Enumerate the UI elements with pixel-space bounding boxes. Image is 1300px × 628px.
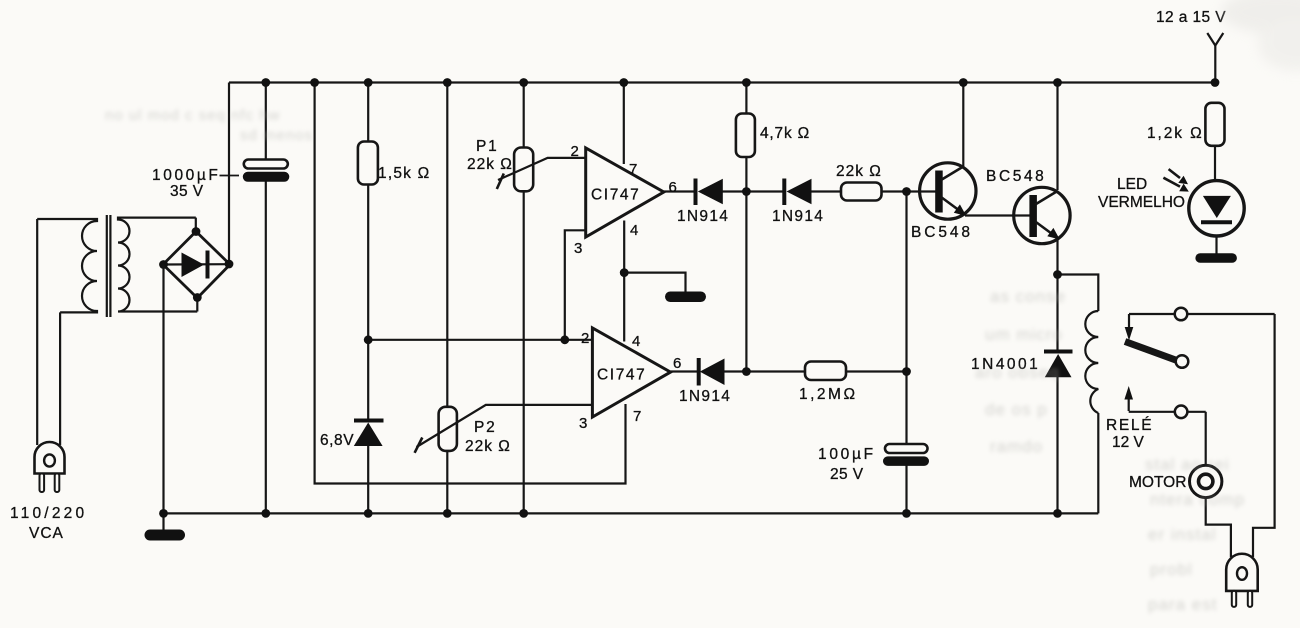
- capacitor C1 1000uF: [243, 160, 289, 182]
- op-amp U2 CI747: [592, 328, 670, 417]
- svg-text:100µF: 100µF: [818, 446, 876, 463]
- wire Q1 collector to rail: [962, 83, 964, 167]
- node Q2 emitter / D5 / relay: [1053, 270, 1062, 279]
- svg-text:4,7k Ω: 4,7k Ω: [760, 125, 810, 142]
- wire rail to U1 pin 7: [623, 83, 625, 165]
- wire Q1 emitter to Q2 base: [965, 214, 1030, 216]
- svg-text:stal ao rei: stal ao rei: [1145, 455, 1230, 474]
- scan smudge top right corner: [1221, 0, 1300, 71]
- label C1 leader line: [220, 175, 240, 177]
- svg-text:BC548: BC548: [986, 168, 1046, 185]
- AC plug P_OUT right: [1226, 554, 1258, 607]
- wire U1 pin 4 to U2 pin 4: [623, 221, 625, 342]
- bleed-through ghost text top-left: [105, 107, 313, 144]
- potentiometer P2 body: [439, 407, 457, 451]
- wire secondary top to bridge: [195, 218, 197, 233]
- wire C1 bottom lead: [265, 181, 267, 513]
- wire C1 top lead: [265, 83, 267, 161]
- svg-text:1,5k Ω: 1,5k Ω: [378, 165, 430, 182]
- wire D1 to D2: [723, 190, 785, 192]
- wire R4 to Q1 base: [881, 190, 935, 192]
- relay arrow bottom: [1124, 386, 1133, 411]
- svg-text:6: 6: [673, 355, 681, 372]
- svg-text:12 a 15 V: 12 a 15 V: [1156, 9, 1226, 26]
- svg-text:sd menos: sd menos: [240, 127, 313, 144]
- svg-text:P1: P1: [476, 138, 499, 155]
- svg-text:25 V: 25 V: [830, 466, 864, 483]
- wire P2 top lead bus: [446, 83, 448, 408]
- node top rail junctions: [261, 78, 1219, 87]
- svg-text:1,2MΩ: 1,2MΩ: [799, 386, 858, 403]
- wire emitter node to relay coil top: [1058, 275, 1099, 312]
- svg-text:VERMELHO: VERMELHO: [1098, 194, 1185, 211]
- wire mid row U1 out to D1: [664, 190, 696, 192]
- svg-text:22k Ω: 22k Ω: [836, 163, 882, 180]
- label P2 22k: [465, 419, 511, 455]
- transistor Q1 BC548: [920, 163, 976, 219]
- svg-text:7: 7: [629, 161, 637, 178]
- svg-text:ntera comp: ntera comp: [1150, 490, 1245, 509]
- svg-text:1N914: 1N914: [772, 208, 824, 225]
- wire zener anode to ground rail: [367, 445, 369, 513]
- diode D2 1N914: [784, 179, 811, 206]
- wire P1 bottom lead bus: [523, 191, 525, 514]
- resistor R5 1,2M: [805, 362, 846, 381]
- wire relay coil bottom to ground rail: [1097, 413, 1099, 513]
- node R4 / Q1 base / C2: [902, 187, 911, 196]
- capacitor C2 100uF: [883, 444, 929, 466]
- svg-text:2: 2: [571, 143, 579, 160]
- wire U2 out to D3: [671, 370, 699, 372]
- relay contact NC top: [1129, 308, 1275, 321]
- potentiometer P1 wiper: [497, 158, 586, 189]
- wire D3 to R5 1,2M: [724, 370, 806, 372]
- svg-text:probl: probl: [1150, 560, 1193, 579]
- wire bottom ground rail: [164, 512, 1099, 514]
- node D1-D2 junction (4,7k): [742, 187, 751, 196]
- wire R3 4,7k top lead: [745, 83, 747, 115]
- svg-text:para est: para est: [1148, 595, 1217, 614]
- relay armature arrow top: [1125, 314, 1134, 341]
- svg-text:22k Ω: 22k Ω: [467, 156, 513, 173]
- ground GND2 mid: [624, 273, 706, 302]
- diode D1 1N914: [696, 179, 723, 206]
- wire U1 pin 3 down to U2 pin 2 node: [565, 230, 586, 339]
- node U2 pin2 / U1 pin3: [560, 335, 569, 344]
- node R5 / C2: [902, 367, 911, 376]
- svg-text:6: 6: [669, 179, 677, 196]
- svg-text:4: 4: [630, 222, 638, 239]
- node bridge top: [192, 227, 201, 236]
- wire rail to bridge right vertex: [228, 83, 230, 265]
- svg-text:aro obseq: aro obseq: [975, 363, 1060, 382]
- svg-text:CI747: CI747: [597, 367, 646, 384]
- wire C2 bottom lead: [905, 465, 907, 513]
- svg-text:2: 2: [581, 330, 589, 347]
- label 110/220 VCA: [10, 505, 87, 542]
- LED arrows: [1163, 169, 1188, 192]
- wire Q2 emitter node down through D5 to ground rail: [1056, 238, 1058, 351]
- label RELE 12V: [1106, 417, 1153, 451]
- wire Q2 collector to rail: [1056, 83, 1058, 191]
- svg-text:LED: LED: [1117, 176, 1147, 193]
- wire contact to motor: [1205, 412, 1207, 466]
- wire motor to plug: [1206, 498, 1231, 557]
- wire R5 to node B: [846, 370, 907, 372]
- supply terminal 12 a 15V: [1207, 33, 1223, 83]
- diode D5 1N4001: [1044, 352, 1073, 378]
- transformer T1 core: [107, 215, 111, 317]
- wire U2 pin 2 line: [368, 339, 592, 341]
- wire top supply rail: [229, 81, 1215, 83]
- transformer T1 primary: [37, 219, 97, 312]
- wire R3 bottom lead down to 1,2M row: [745, 157, 747, 372]
- label 1000uF 35V: [152, 167, 220, 200]
- potentiometer P1 body: [514, 148, 533, 192]
- node bridge left: [159, 260, 168, 269]
- label LED VERMELHO: [1098, 176, 1185, 211]
- svg-text:1,2k Ω: 1,2k Ω: [1147, 125, 1204, 142]
- svg-text:MOTOR: MOTOR: [1129, 474, 1186, 491]
- svg-text:3: 3: [579, 415, 587, 432]
- wire top contact to plug: [1253, 314, 1275, 557]
- label P1 22k: [467, 138, 513, 173]
- svg-text:6,8V: 6,8V: [320, 432, 354, 449]
- bleed-through ghost text: [975, 287, 1245, 614]
- wire node B down to C2: [905, 192, 907, 445]
- svg-text:RELÉ: RELÉ: [1106, 417, 1153, 434]
- svg-text:12 V: 12 V: [1112, 434, 1145, 451]
- resistor R3 4,7k: [736, 114, 755, 158]
- svg-text:ramdo: ramdo: [990, 437, 1043, 456]
- svg-text:de os p: de os p: [985, 400, 1048, 419]
- svg-text:35 V: 35 V: [170, 183, 204, 200]
- svg-text:1N914: 1N914: [677, 208, 729, 225]
- node bridge bottom: [193, 293, 202, 302]
- resistor R2 1,2k: [1205, 103, 1224, 181]
- svg-text:as conse: as conse: [990, 287, 1066, 306]
- label 100uF 25V: [818, 446, 876, 483]
- resistor R4 22k: [841, 183, 882, 201]
- wire P2 bottom lead: [446, 450, 448, 513]
- wire secondary bottom to bridge: [196, 297, 198, 312]
- svg-text:7: 7: [633, 408, 641, 425]
- AC plug P_AC left: [35, 219, 65, 492]
- svg-text:110/220: 110/220: [10, 505, 87, 522]
- svg-text:3: 3: [574, 240, 582, 257]
- wire V+ bus to op-amp U2 pin 7: [315, 83, 626, 484]
- diode D3 1N914: [699, 358, 725, 386]
- svg-text:CI747: CI747: [591, 187, 640, 204]
- svg-text:P2: P2: [474, 419, 497, 436]
- potentiometer P2 wiper: [415, 405, 593, 453]
- svg-text:4: 4: [632, 333, 640, 350]
- relay contact NO bottom: [1129, 406, 1206, 419]
- node bridge right: [225, 260, 234, 269]
- transistor Q2 BC548: [1014, 187, 1070, 243]
- LED D7: [1189, 181, 1244, 254]
- svg-text:1N914: 1N914: [679, 388, 731, 405]
- wire P1 top lead: [523, 83, 525, 149]
- ground GND1 left: [145, 513, 186, 540]
- transformer T1 secondary: [118, 218, 197, 312]
- wire D5 anode to ground rail: [1056, 377, 1058, 513]
- op-amp U1 CI747: [586, 148, 664, 237]
- svg-text:no ul mod c seq nfc hw: no ul mod c seq nfc hw: [105, 107, 280, 124]
- node U1 pin4 ground tap: [620, 268, 629, 277]
- svg-text:um micro: um micro: [985, 325, 1063, 344]
- relay coil RL1: [1085, 311, 1098, 413]
- relay contact pole middle: [1176, 355, 1189, 368]
- node bottom rail junctions: [159, 509, 1062, 518]
- bridge rectifier D6: [163, 232, 230, 299]
- node D3 / R3 bus junction: [742, 367, 751, 376]
- svg-text:BC548: BC548: [911, 224, 973, 241]
- wire bridge left vertex to ground rail: [162, 265, 164, 514]
- wire R1 top lead: [367, 83, 369, 143]
- node zener bus tap: [364, 335, 373, 344]
- wire D2 to R4 22k: [811, 190, 842, 192]
- zener D4 6,8V: [354, 421, 384, 447]
- wire R1 bottom lead / zener node: [367, 184, 369, 421]
- svg-text:er instal: er instal: [1148, 525, 1217, 544]
- svg-text:22k Ω: 22k Ω: [465, 438, 511, 455]
- resistor R1 1,5k: [358, 142, 378, 185]
- ground GND3 below LED: [1195, 253, 1237, 262]
- relay armature: [1125, 342, 1177, 361]
- svg-text:1000µF: 1000µF: [152, 167, 220, 184]
- motor M1: [1190, 465, 1222, 497]
- svg-text:VCA: VCA: [29, 525, 64, 542]
